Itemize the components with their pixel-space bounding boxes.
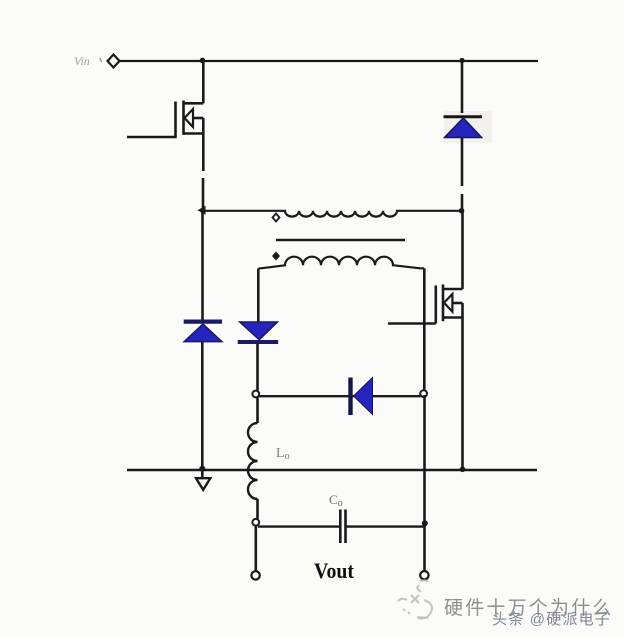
tick after Vin label (100, 58, 102, 62)
wire top rail (119, 60, 538, 62)
terminal output right (420, 571, 428, 579)
wire D1 top (461, 61, 464, 113)
svg-text:头条 @硬派电子: 头条 @硬派电子 (492, 611, 611, 628)
ground symbol (196, 478, 210, 490)
ground rail (127, 469, 537, 471)
junction Q2 source / ground rail (460, 467, 466, 473)
transistor Q2 (388, 285, 463, 324)
wire secondary left leg down (257, 269, 260, 323)
polarity dot secondary (filled diamond) (272, 252, 280, 261)
junction primary left (arrow) (198, 206, 206, 215)
junction circle LC node (252, 391, 259, 398)
wire output top right (347, 525, 425, 527)
junction circle freewheel right (420, 390, 427, 397)
wire Q2 source down to ground rail (461, 318, 464, 471)
diode D2 (left, blue, pointing up, bar above) (184, 322, 222, 342)
wire D3 to LC node (256, 343, 259, 391)
terminal output left (251, 571, 259, 579)
transformer T1 secondary winding (259, 257, 425, 269)
wire Q1 source down to primary node (202, 134, 205, 172)
capacitor Co (340, 510, 345, 544)
transformer T1 primary winding (203, 211, 462, 217)
wire secondary right leg down (423, 268, 426, 392)
diode D4 (freewheel, blue, pointing left) (351, 378, 373, 416)
svg-text:Vout: Vout (314, 558, 355, 583)
junction top rail / D1 leg (459, 58, 464, 63)
junction top rail / Q1 drain (200, 58, 206, 64)
junction primary right (459, 208, 465, 214)
svg-text:Vin: Vin (74, 54, 90, 68)
wire freewheel horizontal (259, 395, 421, 397)
wire D2 bottom to ground rail (201, 341, 204, 477)
wire output left leg (255, 526, 258, 571)
wire output right leg (423, 395, 426, 571)
wire LC node to inductor (256, 398, 259, 424)
watermark logo (398, 580, 432, 618)
wire D1 bottom to primary node (461, 138, 464, 187)
terminal Vin diamond (108, 55, 120, 68)
transistor Q1 (127, 101, 203, 139)
junction D2 leg / ground rail (199, 466, 205, 472)
junction cap right / output leg (422, 520, 428, 526)
junction circle output left (252, 519, 259, 526)
wire D2 top (201, 211, 204, 320)
diode D1 (top right, blue, pointing up) (444, 111, 493, 143)
wire primary node to Q2 drain (461, 211, 464, 289)
transformer core (276, 239, 405, 242)
diode D3 (forward, blue, pointing down, bar below) (238, 322, 278, 342)
wire output top left (258, 525, 339, 527)
wire Q1 drain (202, 61, 205, 103)
polarity dot primary (open diamond) (273, 214, 280, 222)
inductor Lo (248, 423, 258, 499)
wire inductor to output node (256, 499, 259, 519)
